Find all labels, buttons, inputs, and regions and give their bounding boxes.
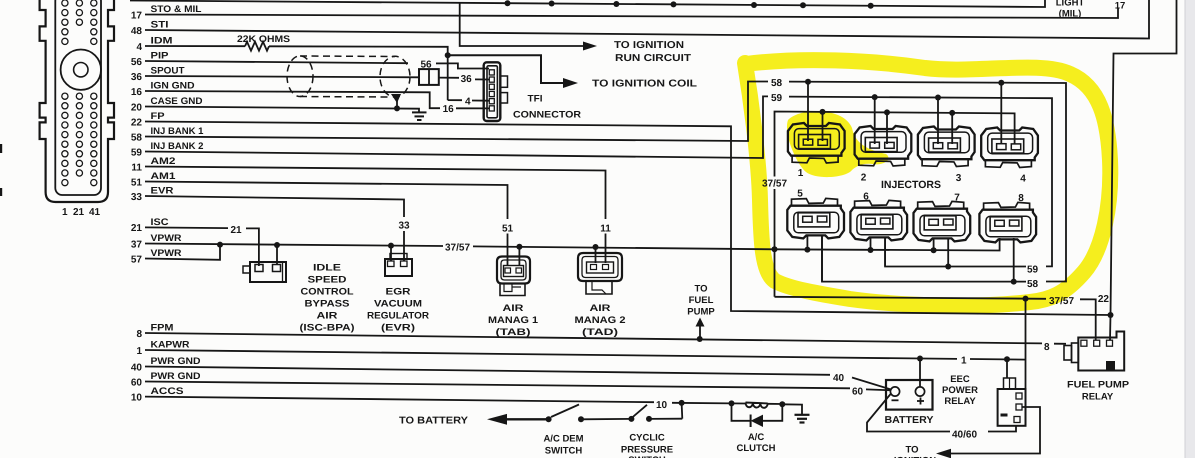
inline connector on SPOUT <box>419 69 439 85</box>
svg-text:2: 2 <box>861 173 867 184</box>
ISC-BPA connector <box>243 262 286 282</box>
svg-text:STI: STI <box>151 19 169 30</box>
svg-text:CASE GND: CASE GND <box>151 96 203 107</box>
svg-text:AIR: AIR <box>317 311 338 322</box>
svg-text:36: 36 <box>461 74 473 85</box>
svg-text:60: 60 <box>131 377 143 388</box>
svg-text:11: 11 <box>600 224 611 235</box>
wire injector5 left pin <box>806 235 808 250</box>
node 58 to injector1 <box>805 79 811 85</box>
svg-text:EEC: EEC <box>950 374 970 385</box>
wire PWR GND pin 40 <box>145 367 830 375</box>
svg-text:4: 4 <box>465 96 471 107</box>
svg-text:MANAG 2: MANAG 2 <box>575 315 626 326</box>
svg-text:4: 4 <box>136 42 142 53</box>
svg-text:CONNECTOR: CONNECTOR <box>513 110 581 121</box>
svg-text:PRESSURE: PRESSURE <box>621 445 673 456</box>
node 59 to injector3 <box>935 95 941 101</box>
svg-text:7: 7 <box>954 193 960 204</box>
svg-text:(MIL): (MIL) <box>1059 9 1082 20</box>
svg-text:FP: FP <box>151 111 166 122</box>
node IDM/coil junction <box>445 52 451 58</box>
wire injector6 right pin <box>884 237 886 267</box>
svg-text:8: 8 <box>136 329 142 340</box>
svg-text:RUN CIRCUIT: RUN CIRCUIT <box>615 53 691 64</box>
svg-text:57: 57 <box>131 254 143 265</box>
wire VPWR riser <box>775 112 1015 297</box>
svg-text:21: 21 <box>231 225 243 236</box>
battery <box>886 380 933 410</box>
ground A/C <box>795 415 810 423</box>
svg-text:21: 21 <box>73 207 85 218</box>
wire EVR pin 33 <box>145 196 404 261</box>
node VPWR top to injector3 <box>949 110 955 116</box>
svg-text:AIR: AIR <box>503 303 524 314</box>
node VPWR to injector bottom x870 <box>868 247 874 253</box>
arrow to ignition run circuit <box>583 42 597 51</box>
svg-text:17: 17 <box>1115 0 1126 11</box>
wire injector1 left pin <box>807 82 809 141</box>
wire CASE GND <box>145 107 419 113</box>
svg-text:TO IGNITION COIL: TO IGNITION COIL <box>592 79 697 90</box>
node 58 to injector8 <box>1011 279 1017 285</box>
svg-text:33: 33 <box>398 221 410 232</box>
node VPWR/57 <box>217 242 223 248</box>
node top bus junction x803 <box>800 2 806 8</box>
svg-text:CLUTCH: CLUTCH <box>736 443 775 454</box>
wire FP pin22 long route <box>145 122 1111 316</box>
wire INJ BANK 2 pin 59 <box>145 96 768 158</box>
wire injector8 right pin <box>1013 238 1015 282</box>
svg-text:40: 40 <box>131 362 143 373</box>
wire top bus <box>130 0 1045 7</box>
svg-text:40: 40 <box>833 373 845 384</box>
injector 2 connector <box>855 126 912 166</box>
EVR connector <box>385 254 412 277</box>
svg-text:IGN GND: IGN GND <box>151 80 195 91</box>
svg-text:20: 20 <box>131 102 143 113</box>
svg-text:33: 33 <box>131 192 143 203</box>
svg-text:INJ BANK 1: INJ BANK 1 <box>151 126 205 137</box>
injector 3 connector <box>918 127 975 167</box>
svg-text:INJ BANK 2: INJ BANK 2 <box>151 141 204 152</box>
svg-text:CONTROL: CONTROL <box>301 287 354 298</box>
svg-text:AM2: AM2 <box>151 156 176 167</box>
svg-text:37/57: 37/57 <box>445 243 470 254</box>
node FP junction <box>1108 312 1114 318</box>
svg-text:22: 22 <box>131 117 143 128</box>
svg-text:10: 10 <box>656 400 668 411</box>
svg-text:36: 36 <box>131 72 143 83</box>
wire battery neg to 40/60 <box>867 394 950 432</box>
wire PIP <box>145 61 408 63</box>
svg-text:SPOUT: SPOUT <box>151 65 185 76</box>
svg-text:TO: TO <box>905 445 918 456</box>
svg-text:BYPASS: BYPASS <box>305 299 350 310</box>
svg-text:51: 51 <box>131 177 143 188</box>
wire injector6 left pin <box>870 237 872 250</box>
node 59 to injector7 <box>945 264 951 270</box>
wire injector3 left pin <box>937 98 939 145</box>
injector 5 connector <box>787 198 844 238</box>
ground case gnd <box>412 112 427 120</box>
wire injector7 right pin <box>947 238 949 267</box>
svg-text:3: 3 <box>956 173 962 184</box>
wire injector2 left pin <box>874 97 876 144</box>
wire KAPWR pin 1 <box>145 350 957 359</box>
EEC power relay <box>998 378 1026 426</box>
node top bus junction x551 <box>549 1 555 7</box>
svg-text:37/57: 37/57 <box>762 178 787 189</box>
svg-text:STO & MIL: STO & MIL <box>151 4 202 15</box>
svg-text:59: 59 <box>131 147 143 158</box>
svg-text:RELAY: RELAY <box>944 396 976 407</box>
wire IGN GND <box>145 91 440 108</box>
svg-text:56: 56 <box>131 57 143 68</box>
svg-text:10: 10 <box>131 392 143 403</box>
svg-text:FPM: FPM <box>151 322 174 333</box>
svg-text:VPWR: VPWR <box>151 248 182 259</box>
svg-text:21: 21 <box>131 223 143 234</box>
svg-text:MANAG 1: MANAG 1 <box>488 315 539 326</box>
highlighter loop around injector block <box>745 60 1110 305</box>
svg-text:(EVR): (EVR) <box>381 323 415 334</box>
wire EEC relay to ignition <box>951 407 1040 454</box>
svg-text:1: 1 <box>136 346 142 357</box>
wire to ignition run circuit <box>460 3 584 46</box>
node VPWR to injector bottom x807 <box>804 247 810 253</box>
wire VPWR bottom line <box>775 297 1047 299</box>
cyclic pressure switch <box>628 416 634 422</box>
svg-text:11: 11 <box>131 162 142 173</box>
wire FPM pin 8 <box>145 333 1042 343</box>
svg-text:58: 58 <box>1027 279 1039 290</box>
svg-text:1: 1 <box>961 356 967 367</box>
EEC 60-pin connector body <box>40 0 114 202</box>
svg-text:1: 1 <box>62 207 68 218</box>
svg-text:PWR GND: PWR GND <box>151 356 201 367</box>
node top bus junction x673 <box>671 1 677 7</box>
wire AM1 pin 51 <box>145 182 508 267</box>
node VPWR to injector riser <box>772 246 778 252</box>
wire VPWR pin 57 join <box>145 245 220 260</box>
node ACCS switch branch <box>679 400 685 406</box>
svg-text:58: 58 <box>131 132 143 143</box>
node KAPWR to EEC relay <box>1004 356 1010 362</box>
svg-text:(TAD): (TAD) <box>582 327 618 338</box>
TFI connector body <box>484 62 508 121</box>
wire injector7 left pin <box>933 238 935 250</box>
wire AM2 pin 11 <box>145 167 606 264</box>
svg-text:VACUUM: VACUUM <box>374 299 422 310</box>
svg-text:EGR: EGR <box>386 287 411 298</box>
svg-text:TFI: TFI <box>528 93 543 104</box>
wire PWR GND pin 60 <box>145 382 850 389</box>
A/C DEM switch <box>546 416 552 422</box>
highlighter blob on injector 1 <box>787 111 889 177</box>
wire to ignition coil <box>448 55 564 83</box>
wire ACCS pin 10 <box>145 397 654 403</box>
wire pin22 from top right <box>1110 0 1177 340</box>
A/C clutch coil <box>729 400 735 406</box>
node 59 to injector2 <box>872 94 878 100</box>
injector 7 connector <box>914 201 971 241</box>
shield drain <box>391 94 401 103</box>
resistor 22K OHMS <box>245 42 269 51</box>
node VPWR top to injector1 <box>820 109 826 115</box>
svg-text:40/60: 40/60 <box>952 430 977 441</box>
injector 4 connector <box>981 128 1038 168</box>
svg-text:A/C DEM: A/C DEM <box>543 434 583 445</box>
svg-text:1: 1 <box>798 168 804 179</box>
svg-text:RELAY: RELAY <box>1082 392 1114 403</box>
injector 1 connector <box>788 123 845 163</box>
wire INJ BANK 1 pin 58 <box>145 82 768 142</box>
svg-text:PWR GND: PWR GND <box>151 371 201 382</box>
node VPWR to injector bottom x933 <box>931 247 937 253</box>
svg-text:CYCLIC: CYCLIC <box>629 433 665 444</box>
svg-text:FUEL PUMP: FUEL PUMP <box>1067 380 1130 391</box>
node VPWR to ISC-BPA <box>274 242 280 248</box>
svg-text:TO IGNITION: TO IGNITION <box>614 40 684 51</box>
wire IDM left segment <box>145 45 245 47</box>
wire VPWR pin 37 <box>145 244 443 247</box>
svg-text:60: 60 <box>852 386 864 397</box>
wire SPOUT <box>145 76 419 77</box>
svg-text:IDLE: IDLE <box>313 263 341 274</box>
svg-text:ISC: ISC <box>151 217 169 228</box>
svg-text:59: 59 <box>771 93 783 104</box>
node VPWR to EVR <box>388 243 394 249</box>
injector 8 connector <box>979 202 1036 242</box>
svg-text:VPWR: VPWR <box>151 233 182 244</box>
node 58 to injector4 <box>998 80 1004 86</box>
node top bus junction x616 <box>613 1 619 7</box>
AIR MANAG 1 TAB connector <box>497 257 530 296</box>
svg-text:A/C: A/C <box>748 432 765 443</box>
svg-text:TO BATTERY: TO BATTERY <box>399 416 468 427</box>
node top bus junction x754 <box>751 2 757 8</box>
svg-text:8: 8 <box>1018 193 1024 204</box>
AIR MANAG 2 TAD connector <box>578 253 622 294</box>
svg-text:16: 16 <box>443 104 455 115</box>
svg-text:59: 59 <box>1027 264 1039 275</box>
EEC connector pin holes <box>62 0 97 186</box>
svg-text:5: 5 <box>797 188 803 199</box>
svg-text:6: 6 <box>863 192 869 203</box>
scan edge band right <box>1185 0 1195 458</box>
svg-text:PUMP: PUMP <box>687 307 715 318</box>
node top bus junction x507 <box>505 0 511 6</box>
node VPWR to TAB <box>516 244 522 250</box>
svg-text:(ISC-BPA): (ISC-BPA) <box>300 323 355 334</box>
svg-text:LIGHT: LIGHT <box>1056 0 1085 9</box>
svg-text:58: 58 <box>771 78 783 89</box>
svg-text:SWITCH: SWITCH <box>545 446 583 457</box>
svg-text:17: 17 <box>131 10 143 21</box>
injector 6 connector <box>850 200 907 240</box>
svg-text:PIP: PIP <box>151 50 170 61</box>
svg-text:8: 8 <box>1044 342 1050 353</box>
svg-text:4: 4 <box>1020 174 1026 185</box>
svg-text:KAPWR: KAPWR <box>151 339 190 350</box>
wire STO & MIL to MIL light <box>145 9 1118 19</box>
svg-text:BATTERY: BATTERY <box>885 415 934 426</box>
svg-text:22K OHMS: 22K OHMS <box>237 34 290 45</box>
scan scraps at left edge <box>0 144 2 153</box>
svg-text:AIR: AIR <box>590 303 611 314</box>
svg-text:IDM: IDM <box>151 35 173 46</box>
node VPWR to EEC relay <box>1023 296 1029 302</box>
A/C clutch diode <box>732 403 783 420</box>
wire injector5 right pin <box>821 235 823 282</box>
svg-text:REGULATOR: REGULATOR <box>367 311 429 322</box>
node VPWR to TAD <box>593 244 599 250</box>
wire 56 to IDM vertical <box>436 62 448 64</box>
node KAPWR to battery <box>917 356 923 362</box>
svg-text:INJECTORS: INJECTORS <box>881 179 941 191</box>
wire VPWR bottom row feed <box>775 238 1000 251</box>
wire IDM right segment to TFI node <box>269 46 448 100</box>
node shield drain to CASE GND <box>394 105 400 111</box>
svg-text:FUEL: FUEL <box>689 295 714 306</box>
wire STI <box>145 0 1149 39</box>
node FPM to fuel pump <box>697 336 703 342</box>
shielded cable dashed oval <box>287 56 410 97</box>
svg-text:POWER: POWER <box>942 385 978 396</box>
svg-text:ACCS: ACCS <box>151 386 184 397</box>
wire SPOUT to TFI pin 2 <box>439 77 459 79</box>
svg-text:AM1: AM1 <box>151 171 177 182</box>
svg-text:37/57: 37/57 <box>1049 296 1074 307</box>
node top bus junction x870 <box>868 3 874 9</box>
wire ISC pin 21 <box>145 226 228 229</box>
svg-text:37: 37 <box>131 239 143 250</box>
svg-text:22: 22 <box>1098 294 1110 305</box>
svg-text:16: 16 <box>131 87 143 98</box>
arrow to ignition <box>936 449 951 458</box>
node VPWR top to injector2 <box>884 109 890 115</box>
svg-text:TO: TO <box>694 284 707 295</box>
svg-text:SPEED: SPEED <box>308 275 347 286</box>
fuel pump relay <box>1064 332 1124 371</box>
svg-text:41: 41 <box>89 207 101 218</box>
svg-text:48: 48 <box>131 26 143 37</box>
arrow to ignition coil <box>563 78 578 88</box>
svg-text:51: 51 <box>502 224 514 235</box>
svg-text:EVR: EVR <box>151 185 174 196</box>
wire injector4 left pin <box>1000 83 1002 144</box>
EEC connector bolt hole <box>61 49 101 89</box>
wire PIP step into TFI pin 1 <box>448 63 489 68</box>
